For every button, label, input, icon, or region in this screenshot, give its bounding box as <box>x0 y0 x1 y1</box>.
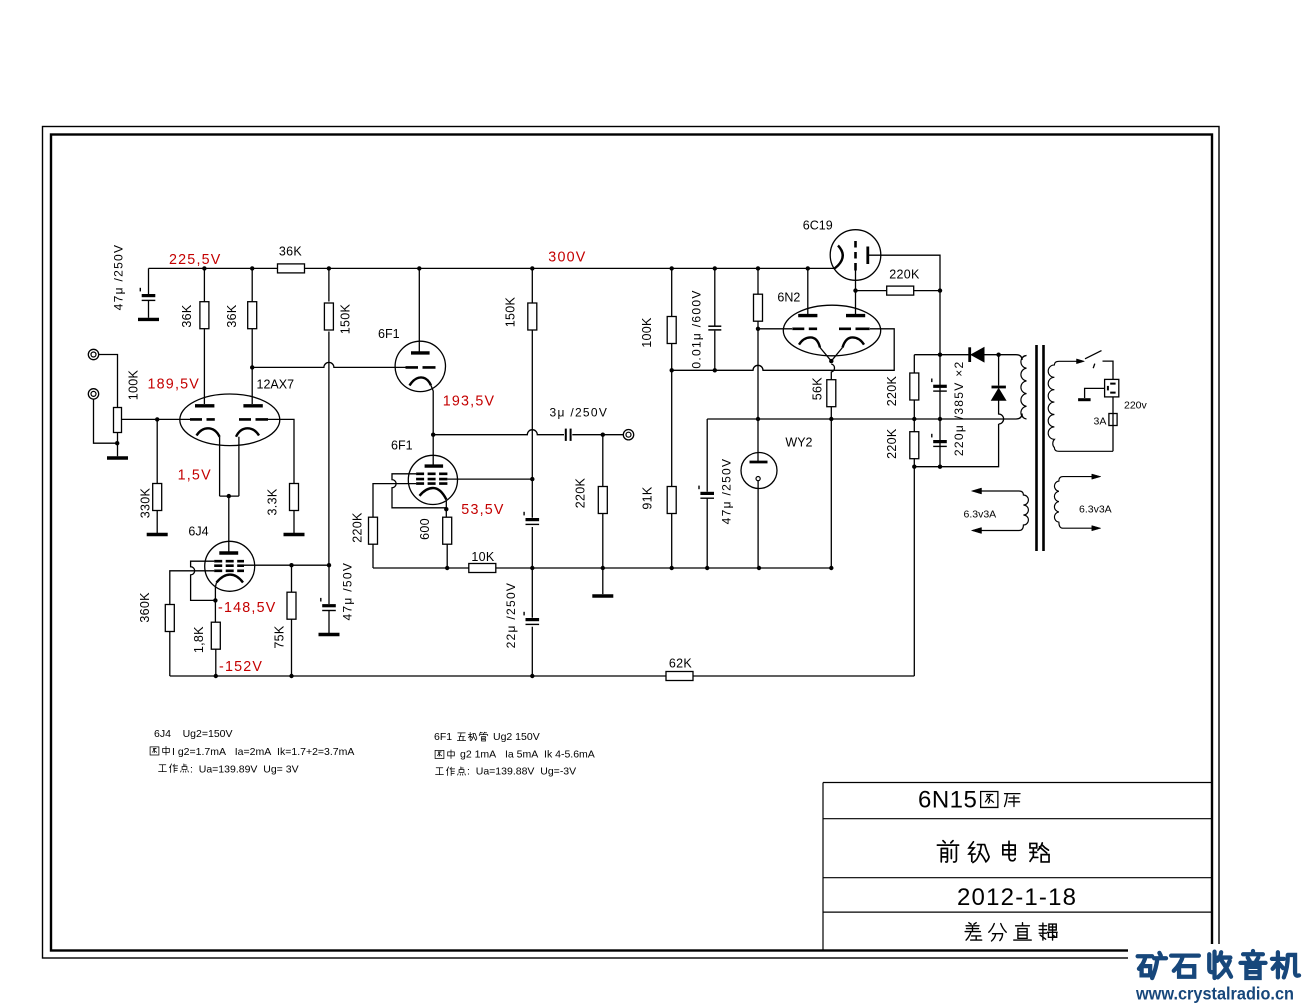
arrow right63 top <box>1092 474 1101 479</box>
resistor 62K horizontal <box>666 672 693 681</box>
node junction bias rail/screen line <box>530 566 534 570</box>
svg-text:220K: 220K <box>351 512 365 543</box>
wire input jack1 <box>99 355 118 408</box>
LOGO <box>1128 944 1302 1006</box>
svg-text:6.3v3A: 6.3v3A <box>1079 504 1112 516</box>
wire 6N2 left anode lead <box>807 268 809 314</box>
fuse 3A <box>1109 414 1117 426</box>
capacitor 22u/250V <box>524 612 539 625</box>
svg-text:220K: 220K <box>574 477 588 508</box>
logo glyph shou <box>1209 952 1231 978</box>
svg-text:220v: 220v <box>1124 400 1148 412</box>
resistor 220K psu upper <box>910 373 919 400</box>
wire 360K to bottom rail <box>169 632 171 677</box>
svg-text:1,8K: 1,8K <box>192 626 206 653</box>
wire 150K-2 leads <box>531 268 533 478</box>
svg-text:36K: 36K <box>225 304 239 328</box>
svg-text:62K: 62K <box>669 657 693 671</box>
capacitor 220u-1 <box>932 379 947 392</box>
svg-text:6.3v3A: 6.3v3A <box>964 509 997 521</box>
node junction B+ line/D1 <box>938 353 942 357</box>
wire hv winding <box>1021 356 1027 420</box>
svg-text:47μ /250V: 47μ /250V <box>112 244 126 311</box>
wire 12AX7 right grid to 3.3K <box>268 419 294 484</box>
ground bar 47u50V <box>319 634 340 636</box>
wire 47u250V left cap lead <box>148 268 150 294</box>
svg-text:6F1: 6F1 <box>434 731 452 743</box>
svg-text:600: 600 <box>418 518 432 540</box>
wire 6J4 cathode to 1.8K <box>215 583 216 623</box>
svg-text:36K: 36K <box>279 245 303 259</box>
svg-text:10K: 10K <box>471 550 495 564</box>
wire 220K-h right lead <box>914 290 941 292</box>
svg-text:: Ua=139.89V Ug= 3V: : Ua=139.89V Ug= 3V <box>190 764 299 776</box>
resistor 330K <box>153 484 162 511</box>
wire 6F1up cathode to 6F1low anode <box>431 385 433 466</box>
svg-text:330K: 330K <box>139 487 153 518</box>
jack input 1 <box>88 349 98 359</box>
node junction 0.01u bottom <box>713 368 717 372</box>
node junction R-divider/6N2 grid <box>756 327 760 331</box>
resistor 220K 6F1grid <box>369 517 378 544</box>
svg-text:6C19: 6C19 <box>803 219 833 233</box>
node junction minus net/220K-psu <box>912 465 916 469</box>
resistor 220K psu lower <box>910 432 919 459</box>
node junction rail/R-divider <box>756 266 760 270</box>
node junction jack2/pot bottom <box>115 441 119 445</box>
wire 220K-psu column <box>913 355 915 676</box>
wire R757 leads <box>757 268 759 419</box>
svg-text:150K: 150K <box>339 303 353 334</box>
capacitor 47u/250V left <box>140 288 155 301</box>
resistor 150K-2 <box>528 303 537 330</box>
potentiometer 100K <box>114 408 122 433</box>
wire bottom psu net y466 <box>914 424 998 467</box>
arrow primary switch <box>1077 359 1085 364</box>
wire 47u250V-wy2 cap <box>706 419 708 568</box>
svg-text:360K: 360K <box>138 592 152 623</box>
wire 220K-out top lead <box>602 435 604 488</box>
resistor 10K horizontal <box>469 564 496 573</box>
logo glyph shi <box>1171 956 1199 977</box>
svg-text:100K: 100K <box>127 369 141 400</box>
wire bottom rail -152V <box>170 675 915 677</box>
resistor 220K horizontal 6C19 <box>887 286 914 295</box>
resistor 600 <box>443 517 452 544</box>
node junction -152V rail/75K <box>289 674 293 678</box>
capacitor 3u/250V output <box>566 429 571 441</box>
wire 36K-1 leads <box>203 268 205 404</box>
resistor 360K <box>165 605 174 632</box>
wire pot bottom to gnd <box>117 433 119 457</box>
wire 6F1low g3 hook <box>392 474 446 508</box>
arrow left63 bottom <box>972 528 982 534</box>
logo glyph kuang <box>1138 953 1166 978</box>
svg-text:2012-1-18: 2012-1-18 <box>957 884 1077 911</box>
title row2 glyph dian <box>1003 841 1015 861</box>
svg-text:6N2: 6N2 <box>777 291 800 305</box>
node junction rail/6N2 anode <box>806 266 810 270</box>
node junction 6N2 cathodes <box>829 359 833 363</box>
svg-text:225,5V: 225,5V <box>169 252 222 268</box>
svg-text:6F1: 6F1 <box>378 327 400 341</box>
svg-text:36K: 36K <box>180 304 194 328</box>
node junction g2 wire/150K-1/47u <box>327 563 331 567</box>
capacitor 0.01u/600V <box>708 326 721 330</box>
node junction grid/330K <box>155 417 159 421</box>
wire primary winding <box>1048 361 1113 451</box>
resistor 220K output <box>598 487 607 514</box>
capacitor screen upper <box>524 512 539 525</box>
svg-text:3.3K: 3.3K <box>266 488 280 515</box>
resistor 36K horizontal <box>278 264 305 273</box>
svg-text:6N15: 6N15 <box>918 787 977 814</box>
svg-text:100K: 100K <box>640 317 654 348</box>
node junction output/220K <box>601 433 605 437</box>
svg-text:g2 1mA Ia 5mA Ik 4-5.6mA: g2 1mA Ia 5mA Ik 4-5.6mA <box>460 749 595 761</box>
node junction rail/100K <box>670 266 674 270</box>
title row2 glyph lu <box>1030 843 1049 862</box>
svg-text:-152V: -152V <box>219 659 263 675</box>
svg-text:47μ /250V: 47μ /250V <box>720 458 734 525</box>
wire 6J4 g3 hook <box>191 561 216 600</box>
node junction g2 wire/75K <box>289 563 293 567</box>
svg-text:Ug2 150V: Ug2 150V <box>493 731 540 743</box>
ground bar under 47u left <box>138 318 159 320</box>
node junction center-tap net/220u caps <box>938 417 942 421</box>
title row4 glyph ou <box>1039 923 1057 940</box>
svg-text:1,5V: 1,5V <box>178 468 212 484</box>
node junction -152V rail/22u <box>530 674 534 678</box>
diode D1 <box>970 347 984 362</box>
node junction center-tap net/WY2 top <box>756 417 760 421</box>
resistor 36K-2 <box>248 302 257 329</box>
notes left l3 gong zuo dian <box>159 765 167 772</box>
wire cap to output jack <box>572 434 623 436</box>
wire 0.01u leads <box>714 268 716 370</box>
node junction rail/150K-2 <box>530 266 534 270</box>
tube WY2 internals <box>750 462 768 481</box>
wire 6J4 g2 line <box>244 564 329 566</box>
node junction 6J4 cathode/g3 <box>213 598 217 602</box>
resistor 75K <box>287 592 296 619</box>
wire 330K leads <box>156 419 158 533</box>
tube 6N2 internals <box>792 316 869 348</box>
title row4 glyph fen <box>989 924 1006 941</box>
node junction 6C19 grid/220K-h <box>853 288 857 292</box>
wire 6F1 screen line caps <box>531 480 533 676</box>
PARTS <box>88 230 1118 681</box>
wire core lines <box>1037 345 1044 551</box>
node junction minus net/220u-2 <box>938 465 942 469</box>
jack input 2 <box>88 389 98 399</box>
svg-text:6F1: 6F1 <box>391 439 413 453</box>
wire 6F1low g1 to 220K <box>373 484 416 517</box>
wire 6N2 cathode join <box>820 348 843 362</box>
svg-text:3μ /250V: 3μ /250V <box>550 406 609 420</box>
wire 6C19 grid lead <box>856 290 888 292</box>
logo glyph yin <box>1240 951 1265 978</box>
svg-text:220K: 220K <box>889 267 920 281</box>
tube 12AX7 envelope <box>180 394 280 446</box>
wire 220K-out bottom / 91K <box>603 512 672 568</box>
arrow right63 bottom <box>1092 526 1101 531</box>
wire B+ h to winding <box>914 354 998 356</box>
node junction 12AX7 cathodes <box>227 494 231 498</box>
ground bar plug <box>1078 398 1091 401</box>
tube 6F1 upper envelope <box>395 341 445 391</box>
tube WY2 envelope <box>741 453 777 489</box>
wire 220Kout gnd <box>602 568 604 594</box>
node junction bias rail/56K riser <box>829 566 833 570</box>
svg-text:47μ /50V: 47μ /50V <box>341 562 355 621</box>
wire right 6.3v winding <box>1054 477 1095 529</box>
capacitor 220u-2 <box>932 434 947 447</box>
svg-text:220K: 220K <box>885 428 899 459</box>
wire 150K-1 leads <box>328 268 330 565</box>
tube 6F1 lower envelope <box>408 455 457 504</box>
logo glyph ji <box>1272 952 1299 977</box>
resistor 36K-1 <box>200 302 209 329</box>
capacitor 47u/50V <box>321 598 336 611</box>
svg-text:193,5V: 193,5V <box>443 394 496 410</box>
NOTES CJK glyphs <box>150 732 488 775</box>
node junction 36K-2 lead/grid wire <box>250 365 254 369</box>
notes right l2 tu zhong <box>435 750 444 758</box>
node junction center-tap net/220K-psu <box>912 417 916 421</box>
title row4 glyph zhi <box>1014 923 1031 940</box>
node junction rail/0.01u <box>713 266 717 270</box>
tube 6J4 internals <box>214 553 244 583</box>
node junction rail/36K-2 <box>250 266 254 270</box>
node junction rail/6F1up anode <box>417 266 421 270</box>
wire wy2 top lead <box>757 419 759 462</box>
border frame outer <box>43 127 1220 959</box>
svg-text:56K: 56K <box>811 377 825 401</box>
title row2 glyph qian <box>937 841 958 862</box>
arrow left63 top <box>972 488 982 494</box>
notes right l3 gong zuo dian <box>436 768 444 775</box>
wire 75K leads <box>291 565 293 676</box>
wire net y419 center tap <box>707 414 1022 420</box>
tube 12AX7 internals <box>190 406 268 437</box>
wire 220K-6F1 bottom <box>372 545 374 569</box>
ground bar 330K <box>147 534 168 536</box>
svg-text:91K: 91K <box>641 486 655 510</box>
jack output <box>623 430 633 440</box>
ground bar 3.3K <box>284 534 305 536</box>
title row4 glyph cha <box>965 923 982 940</box>
svg-text:53,5V: 53,5V <box>461 502 504 518</box>
node junction bias rail/220K-out gnd <box>601 566 605 570</box>
ground bar pot <box>107 457 128 459</box>
wire 6J4 g1 to 360K <box>170 571 214 605</box>
tube 6C19 internals <box>835 241 868 271</box>
resistor unlabeled 757 <box>754 294 763 321</box>
plug 220v <box>1105 379 1119 397</box>
wire 47u50V leads <box>328 565 330 633</box>
wire top rail 225.5/300V <box>149 267 836 269</box>
node junction center-tap net/56K <box>829 417 833 421</box>
wire 6F1low g2 to screen line <box>447 478 532 480</box>
node junction bias rail/47u-wy2 <box>705 566 709 570</box>
ground bar 220K output <box>592 595 613 597</box>
wire switch to plug <box>1103 361 1114 379</box>
svg-text:0.01μ /600V: 0.01μ /600V <box>690 289 704 368</box>
svg-text:3A: 3A <box>1094 416 1107 428</box>
svg-text:: Ua=139.88V Ug=-3V: : Ua=139.88V Ug=-3V <box>467 766 576 778</box>
wire plug bottom to fuse <box>1112 397 1114 451</box>
MAIN GROUP <box>43 127 1220 959</box>
wire wy2 bottom lead <box>757 481 759 568</box>
wire 56K leads <box>831 364 834 568</box>
diode D2 <box>992 387 1006 400</box>
resistor 1.8K <box>211 622 220 649</box>
node dots rail <box>115 266 1001 678</box>
resistor 56K <box>827 380 836 407</box>
svg-text:WY2: WY2 <box>785 436 812 450</box>
tube 6J4 envelope <box>205 541 255 591</box>
title row1 glyph ku <box>1005 794 1020 807</box>
wire net y370 100K bottom to 6N2 right grid <box>672 329 895 371</box>
wire switch <box>1085 351 1102 369</box>
node junction rail/150K-1 <box>327 266 331 270</box>
wire plug gnd branch <box>1085 388 1105 398</box>
wire 6N2 right anode lead <box>855 271 857 315</box>
wire anode out with hop <box>433 430 564 435</box>
tube 6N2 envelope <box>783 305 880 356</box>
titleblock lines <box>823 783 1212 951</box>
TITLEBLOCK <box>823 783 1212 951</box>
svg-text:220μ /385V ×2: 220μ /385V ×2 <box>952 361 966 457</box>
resistor 3.3K <box>290 484 299 511</box>
notes left l2 tu zhong <box>150 747 159 755</box>
svg-text:22μ /250V: 22μ /250V <box>504 582 518 649</box>
wire 36K-2 leads <box>251 268 253 404</box>
svg-text:75K: 75K <box>273 625 287 649</box>
border frame inner <box>51 135 1212 951</box>
wire 6F1up anode lead <box>418 268 420 352</box>
node junction 100K bottom/91K <box>670 368 674 372</box>
wire 3.3K gnd lead <box>293 510 295 533</box>
svg-text:6J4: 6J4 <box>188 525 208 539</box>
wire 6F1low cathode lead <box>445 499 447 518</box>
wire 6C19 anode lead <box>868 255 940 467</box>
svg-text:189,5V: 189,5V <box>148 377 201 393</box>
wire 100K-right leads <box>671 268 673 488</box>
node junction screen line/6F1low g2 <box>530 477 534 481</box>
svg-text:12AX7: 12AX7 <box>257 378 295 392</box>
node junction 220K-h/B+ line <box>938 288 942 292</box>
node junction rail/36K-1 <box>202 266 206 270</box>
resistor 91K <box>667 487 676 514</box>
wire pot wiper to grid <box>122 418 191 420</box>
node junction D1/winding/D2 <box>996 353 1000 357</box>
node junction 6F1 anode/output wire <box>431 433 435 437</box>
wire bias rail y568 <box>373 567 831 569</box>
wire 6N2 left grid <box>758 328 792 330</box>
wire diode1 right to winding corner <box>999 355 1022 360</box>
wire left 6.3v winding <box>977 491 1028 531</box>
svg-text:www.crystalradio.cn: www.crystalradio.cn <box>1135 984 1294 1004</box>
node junction bias rail/91K <box>670 566 674 570</box>
svg-text:-148,5V: -148,5V <box>218 600 276 616</box>
tube 6F1 lower internals <box>416 466 447 499</box>
svg-text:220K: 220K <box>885 375 899 406</box>
wire input jack2 <box>94 399 118 443</box>
logo white backdrop <box>1128 944 1302 1006</box>
resistor 100K-right <box>667 317 676 344</box>
svg-text:I g2=1.7mA Ia=2mA Ik=1.7+2=: I g2=1.7mA Ia=2mA Ik=1.7+2=3.7mA <box>172 746 354 758</box>
node junction bias rail/600 <box>445 566 449 570</box>
node junction -152V rail/1.8K <box>214 674 218 678</box>
svg-text:150K: 150K <box>504 296 518 327</box>
tube 6C19 envelope <box>830 230 881 281</box>
resistor 150K-1 <box>324 303 333 330</box>
node junction bias rail/WY2 <box>757 566 761 570</box>
capacitor 47u/250V wy2 <box>699 486 714 499</box>
wire 600 bottom <box>446 545 448 569</box>
wire 12AX7 cathode funnel <box>220 437 239 552</box>
svg-text:300V: 300V <box>548 250 586 266</box>
node junction 6F1low cathode/600 <box>444 507 448 511</box>
wire d2 vertical with hop <box>999 355 1004 424</box>
notes left line2 <box>172 746 354 758</box>
wire 1.8K to rail <box>215 649 217 676</box>
title row1 glyph tu <box>981 792 998 808</box>
svg-text:6J4 Ug2=150V: 6J4 Ug2=150V <box>154 728 233 740</box>
title row2 glyph ji2 <box>969 842 989 863</box>
wire grid12AX7-to-6F1 with hop <box>252 362 405 367</box>
tube 6F1 upper internals <box>406 353 436 386</box>
notes right l1 wu ji guan <box>457 733 465 741</box>
